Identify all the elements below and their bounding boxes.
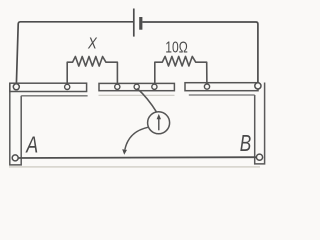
terminal screw middle strip right (10ohm left lead) [152, 84, 157, 89]
galvanometer needle (up arrow) [158, 118, 160, 131]
svg-text:A: A [25, 132, 39, 158]
wire: battery to top-right corner and right drop [142, 22, 258, 83]
terminal screw bottom-right [256, 154, 262, 160]
terminal screw top-left [13, 84, 19, 90]
terminal screw top-right [255, 83, 261, 89]
svg-text:X: X [87, 36, 98, 53]
bridge wire A to B [15, 156, 259, 159]
terminal screw middle strip left (X right lead) [115, 84, 120, 89]
copper strip right [185, 83, 258, 91]
faint shadow line under board [9, 166, 260, 168]
copper strip middle [99, 83, 174, 90]
wire: jockey lead from galvanometer [125, 127, 148, 149]
battery B1 long plate [133, 9, 135, 37]
battery B1 short thick plate [139, 17, 142, 30]
terminal screw on left strip (X left lead) [65, 84, 70, 89]
inner top edge under left strip [21, 95, 87, 97]
copper strip left [10, 83, 87, 91]
inner top edge under right strip [189, 94, 255, 96]
terminal screw middle strip centre (galvanometer tap) [134, 84, 139, 89]
jockey arrowhead touching bridge wire [122, 149, 127, 155]
terminal screw on right strip (10ohm right lead) [204, 84, 209, 89]
svg-text:10Ω: 10Ω [165, 39, 188, 56]
paper background [0, 0, 302, 179]
galvanometer G body [148, 112, 170, 134]
resistor X (zigzag with leads) [67, 57, 117, 85]
wire: left drop and top rail to battery [16, 22, 133, 84]
board left column outer edge [10, 83, 21, 165]
svg-text:B: B [240, 132, 252, 157]
terminal screw bottom-left [12, 155, 18, 161]
wire: galvanometer to middle strip tap [137, 89, 157, 113]
board right column outer edge [255, 83, 265, 164]
resistor R 10ohm (zigzag with leads) [155, 56, 207, 85]
inner top edge under middle strip (faint) [99, 94, 175, 96]
